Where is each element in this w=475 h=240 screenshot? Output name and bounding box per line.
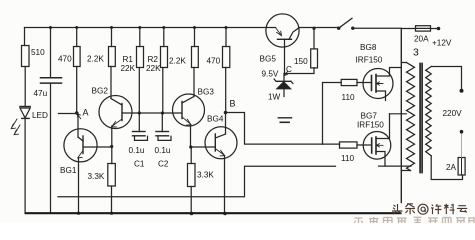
svg-text:150: 150	[294, 57, 308, 66]
svg-text:A: A	[83, 108, 89, 118]
svg-text:BG5: BG5	[260, 55, 277, 64]
svg-text:2.2K: 2.2K	[87, 55, 104, 64]
svg-text:22K: 22K	[146, 64, 161, 73]
svg-text:22K: 22K	[121, 64, 136, 73]
svg-text:BG2: BG2	[92, 87, 109, 96]
svg-text:BG1: BG1	[60, 166, 77, 175]
svg-text:BG4: BG4	[207, 115, 224, 124]
svg-text:220V: 220V	[443, 109, 463, 118]
svg-text:3.3K: 3.3K	[88, 172, 105, 181]
svg-text:510: 510	[31, 48, 45, 57]
svg-text:0.1u: 0.1u	[155, 146, 171, 155]
svg-text:R2: R2	[148, 55, 159, 64]
svg-text:3: 3	[413, 47, 419, 59]
svg-text:1W: 1W	[268, 93, 281, 102]
svg-text:3.3K: 3.3K	[197, 171, 214, 180]
svg-text:C2: C2	[158, 160, 169, 169]
svg-text:0.1u: 0.1u	[129, 146, 145, 155]
svg-text:2.2K: 2.2K	[169, 57, 186, 66]
svg-text:IRF150: IRF150	[356, 56, 383, 65]
svg-text:R1: R1	[123, 55, 134, 64]
svg-text:B: B	[230, 99, 236, 109]
svg-text:BG8: BG8	[360, 43, 377, 52]
svg-text:LED: LED	[32, 111, 48, 120]
svg-text:470: 470	[207, 57, 221, 66]
svg-text:2A: 2A	[446, 163, 457, 172]
svg-text:C1: C1	[134, 160, 145, 169]
svg-text:+12V: +12V	[432, 39, 452, 48]
svg-text:9.5V: 9.5V	[262, 70, 279, 79]
svg-text:BG7: BG7	[361, 112, 378, 121]
svg-text:C: C	[286, 65, 292, 74]
svg-text:IRF150: IRF150	[357, 121, 384, 130]
svg-text:47u: 47u	[34, 89, 48, 98]
svg-text:20A: 20A	[414, 35, 429, 44]
svg-text:BG3: BG3	[198, 88, 215, 97]
svg-text:110: 110	[341, 154, 354, 163]
svg-text:470: 470	[58, 55, 72, 64]
svg-text:110: 110	[342, 93, 355, 102]
